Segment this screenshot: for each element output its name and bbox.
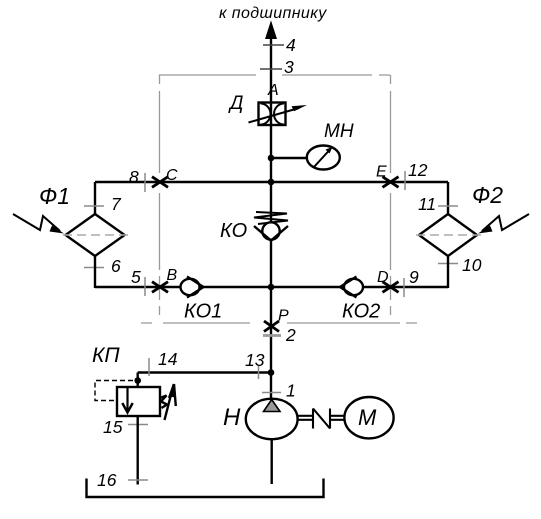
svg-text:14: 14 — [158, 349, 178, 369]
filter Ф2 — [416, 182, 529, 288]
svg-text:4: 4 — [286, 35, 296, 55]
wire: Ф1 lower riser — [94, 256, 96, 288]
motor М — [344, 397, 393, 438]
node 4 — [263, 44, 284, 46]
svg-text:13: 13 — [245, 350, 265, 370]
relief valve КП — [92, 344, 176, 420]
drain arrow into Ф1 — [13, 214, 60, 231]
svg-text:P: P — [278, 308, 289, 325]
coupling pump-motor — [298, 409, 345, 429]
check valve КО1 — [181, 277, 223, 323]
svg-text:15: 15 — [103, 417, 123, 437]
wire: Ф2 upper riser — [447, 182, 449, 215]
svg-text:16: 16 — [97, 470, 117, 490]
svg-text:9: 9 — [409, 267, 419, 287]
node 9 — [403, 278, 405, 297]
svg-text:КО: КО — [220, 220, 247, 242]
node 5 — [144, 277, 146, 296]
filter element: diamond — [419, 214, 477, 256]
tank — [87, 479, 324, 498]
svg-text:к подшипнику: к подшипнику — [219, 5, 327, 22]
node 12 — [404, 171, 406, 190]
svg-text:8: 8 — [129, 167, 139, 187]
svg-text:Ф2: Ф2 — [472, 182, 503, 208]
svg-text:6: 6 — [111, 256, 121, 276]
node P — [264, 321, 279, 332]
node 13 — [258, 365, 260, 379]
svg-text:3: 3 — [284, 57, 294, 77]
filter element: diamond — [66, 214, 125, 256]
node 7 — [84, 205, 104, 207]
node 3 — [260, 68, 282, 70]
node B — [152, 282, 168, 293]
junction: manometer branch — [268, 155, 275, 162]
wire: pump suction to tank — [271, 438, 273, 484]
wire: Ф2 lower riser — [447, 256, 449, 288]
node E — [383, 177, 399, 188]
check valve КО — [220, 212, 288, 242]
svg-text:12: 12 — [408, 160, 428, 180]
node 14 — [148, 358, 150, 376]
svg-text:7: 7 — [111, 194, 122, 214]
enclosure: dash-dot frame — [141, 75, 417, 323]
spring with adjustment arrow — [160, 384, 176, 420]
svg-text:М: М — [358, 405, 377, 430]
node 16 — [128, 479, 148, 481]
wire: line from pump tee to relief valve — [138, 371, 271, 373]
throttle Д (adjustable) — [228, 93, 307, 125]
node 10 — [438, 263, 458, 265]
manometer МН — [307, 121, 354, 170]
svg-text:МН: МН — [324, 121, 354, 142]
svg-text:КО2: КО2 — [342, 301, 380, 323]
valve flow arrow — [126, 387, 128, 412]
svg-text:E: E — [376, 164, 387, 181]
svg-text:2: 2 — [285, 325, 296, 345]
node 8 — [144, 173, 146, 192]
svg-text:5: 5 — [131, 267, 141, 287]
svg-text:Н: Н — [223, 404, 241, 431]
svg-text:Д: Д — [228, 93, 243, 114]
node 15 — [128, 424, 148, 426]
wire: main vertical supply line with arrow to bearing — [266, 22, 277, 399]
wire: upper distribution bus — [95, 181, 448, 183]
svg-text:C: C — [166, 167, 178, 184]
node C — [152, 177, 168, 188]
node 1 — [262, 392, 281, 394]
svg-text:1: 1 — [286, 381, 296, 401]
wire: relief valve drain to tank — [136, 416, 138, 485]
svg-text:Ф1: Ф1 — [39, 183, 70, 209]
junction: tee at pump outlet — [268, 369, 275, 376]
node 2 — [263, 334, 281, 337]
svg-text:КО1: КО1 — [184, 301, 222, 323]
drain arrow into Ф2 — [482, 214, 529, 231]
wire: Ф1 upper riser — [94, 182, 96, 215]
junction: upper bus / main line — [268, 179, 275, 186]
svg-text:КП: КП — [92, 344, 120, 367]
junction: lower bus / main line — [268, 284, 275, 291]
node 6 — [84, 267, 104, 269]
svg-text:A: A — [267, 82, 279, 99]
wire: lower distribution bus — [95, 286, 448, 288]
pump Н — [223, 399, 298, 440]
svg-text:D: D — [377, 269, 389, 286]
filter Ф1 — [13, 182, 128, 288]
junction: pilot tap — [134, 377, 141, 384]
wire: branch to manometer — [271, 157, 307, 159]
svg-text:11: 11 — [418, 194, 436, 214]
svg-text:10: 10 — [462, 255, 482, 275]
svg-text:B: B — [167, 267, 178, 284]
node 11 — [438, 205, 458, 207]
node D — [383, 282, 399, 293]
check valve КО2 — [340, 277, 380, 323]
pilot dashed line — [95, 381, 133, 401]
